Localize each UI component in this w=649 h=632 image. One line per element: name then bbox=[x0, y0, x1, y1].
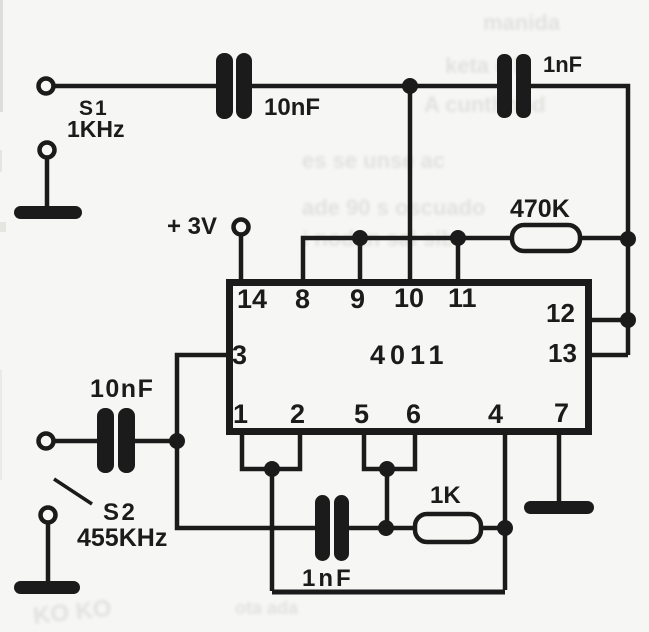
IC U1 4011 body bbox=[230, 283, 589, 432]
wire pin3 route bbox=[177, 355, 317, 528]
ground pin7 bbox=[524, 501, 594, 514]
svg-text:1KHz: 1KHz bbox=[67, 116, 125, 142]
terminal S1 bbox=[39, 79, 54, 94]
wire C3 to node bbox=[135, 439, 177, 444]
svg-text:4: 4 bbox=[488, 399, 503, 429]
svg-text:4011: 4011 bbox=[370, 340, 449, 370]
wire S2 to C3 bbox=[54, 439, 99, 444]
capacitor C1 10nF bbox=[216, 53, 252, 119]
resistor R1 470K bbox=[512, 225, 580, 251]
svg-text:manida: manida bbox=[483, 10, 561, 35]
svg-text:6: 6 bbox=[406, 399, 421, 429]
svg-text:13: 13 bbox=[548, 338, 577, 368]
svg-text:+ 3V: + 3V bbox=[167, 213, 217, 240]
node C4 R2 bbox=[378, 520, 394, 536]
resistor R2 1K bbox=[415, 514, 481, 542]
svg-text:10: 10 bbox=[394, 283, 424, 313]
wire C1 to C2 bbox=[252, 84, 499, 89]
svg-text:1nF: 1nF bbox=[543, 52, 582, 77]
node pin11 bbox=[450, 230, 466, 246]
svg-text:8: 8 bbox=[295, 284, 310, 314]
capacitor C4 1nF bbox=[315, 495, 349, 561]
wire node to bottom bbox=[270, 469, 275, 591]
wire +3V to pin14 bbox=[239, 235, 244, 282]
terminal S2 bbox=[39, 434, 54, 449]
wire S1 ground bbox=[45, 158, 50, 210]
node junction top (pin 10 tap) bbox=[402, 78, 418, 94]
svg-text:9: 9 bbox=[350, 284, 365, 314]
node pin4 bbox=[497, 520, 513, 536]
wire R2 to pin4 line bbox=[481, 526, 505, 531]
wire C4 to R2 bbox=[349, 526, 417, 531]
wire pin8 to resistor bbox=[303, 238, 512, 281]
wire C2 to right bus bbox=[531, 86, 628, 355]
node pin9 bbox=[352, 230, 368, 246]
svg-text:10nF: 10nF bbox=[264, 94, 320, 121]
wire pin7 stub bbox=[557, 432, 562, 503]
svg-text:5: 5 bbox=[354, 399, 369, 429]
wire pin4 vertical bbox=[503, 432, 508, 590]
svg-text:ota ada: ota ada bbox=[235, 598, 299, 618]
svg-text:470K: 470K bbox=[510, 195, 570, 223]
node pins 1-2 bbox=[264, 461, 280, 477]
svg-text:14: 14 bbox=[237, 284, 267, 314]
svg-text:1K: 1K bbox=[430, 482, 461, 509]
wire pin13 bbox=[589, 353, 628, 358]
svg-text:es se unse ac: es se unse ac bbox=[302, 148, 445, 173]
svg-text:10nF: 10nF bbox=[90, 375, 154, 403]
ground S1 bbox=[14, 206, 82, 219]
ground S1 stub bbox=[40, 143, 55, 158]
svg-text:3: 3 bbox=[232, 340, 247, 370]
wire node to C4 wire bbox=[385, 469, 390, 528]
wire pin11 vertical bbox=[456, 238, 461, 282]
wire pin12 bbox=[589, 318, 628, 323]
wire S2 ground bbox=[46, 523, 51, 585]
ground S2 bbox=[14, 581, 80, 594]
terminal +3V bbox=[234, 220, 249, 235]
wire pins 1-2 bracket bbox=[242, 432, 300, 469]
svg-text:1: 1 bbox=[233, 399, 248, 429]
wire pin10 vertical bbox=[408, 86, 413, 282]
node bus R1 bbox=[620, 231, 636, 247]
capacitor C3 10nF bbox=[97, 408, 135, 473]
svg-text:2: 2 bbox=[290, 399, 305, 429]
wire pin9 vertical bbox=[358, 238, 363, 282]
terminal S2 ground post bbox=[41, 508, 56, 523]
svg-text:11: 11 bbox=[448, 283, 477, 313]
node bus pin12 bbox=[620, 312, 636, 328]
svg-text:S2: S2 bbox=[103, 499, 137, 526]
node pins 5-6 bbox=[379, 461, 395, 477]
wire R1 to bus bbox=[580, 236, 628, 241]
node pin3 branch bbox=[169, 433, 185, 449]
capacitor C2 1nF bbox=[497, 54, 531, 118]
svg-text:1nF: 1nF bbox=[302, 565, 354, 592]
svg-text:keta e b: keta e b bbox=[445, 53, 527, 78]
svg-text:ade 90 s oscuado: ade 90 s oscuado bbox=[302, 195, 485, 220]
svg-text:455KHz: 455KHz bbox=[77, 524, 167, 552]
switch S2 lever bbox=[54, 479, 92, 504]
wire bottom return bbox=[272, 590, 505, 595]
svg-text:12: 12 bbox=[546, 298, 575, 328]
wire S1 to C1 bbox=[54, 84, 218, 89]
wire pins 5-6 bracket bbox=[364, 432, 415, 469]
svg-text:7: 7 bbox=[554, 398, 569, 428]
